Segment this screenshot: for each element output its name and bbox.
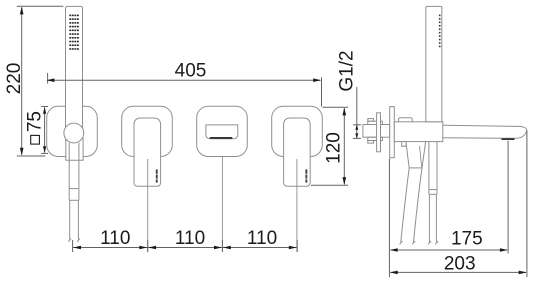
svg-text:405: 405 <box>175 60 207 81</box>
svg-text:203: 203 <box>444 253 476 274</box>
svg-text:110: 110 <box>247 228 277 249</box>
svg-text:G1/2: G1/2 <box>336 50 357 91</box>
svg-text:175: 175 <box>451 229 483 250</box>
svg-text:120: 120 <box>323 132 344 164</box>
svg-text:75: 75 <box>25 111 46 132</box>
svg-text:220: 220 <box>4 63 25 95</box>
svg-text:110: 110 <box>175 228 205 249</box>
svg-text:110: 110 <box>100 228 130 249</box>
